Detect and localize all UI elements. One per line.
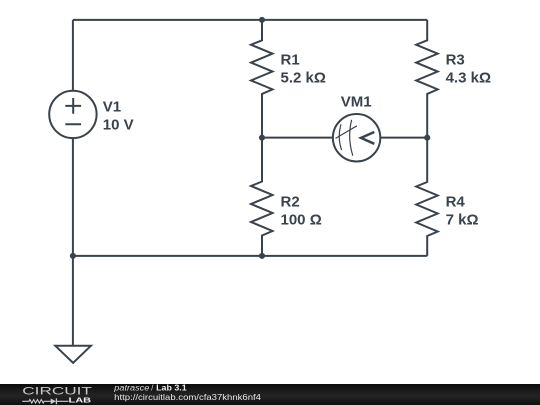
wire ground stub <box>72 256 74 346</box>
resistor R4 <box>416 138 438 256</box>
svg-text:http://circuitlab.com/cfa37khn: http://circuitlab.com/cfa37khnk6nf4 <box>114 393 261 402</box>
VM1 gauge needle <box>336 126 357 139</box>
node dot: R2 / bottom rail <box>259 253 265 259</box>
voltmeter VM1 body <box>333 114 380 161</box>
wire left rail lower <box>72 138 74 256</box>
svg-text:/: / <box>151 384 154 393</box>
wire top rail <box>73 19 427 21</box>
wire left rail upper <box>72 20 74 91</box>
svg-text:patrasce: patrasce <box>113 384 150 393</box>
footer logo resistor zigzag wire <box>22 400 68 404</box>
node dot: left rail / bottom rail <box>70 253 76 259</box>
wire middle left (node B to VM1) <box>262 137 333 139</box>
footer bar <box>0 384 540 405</box>
wire middle right (VM1 to node C) <box>380 137 427 139</box>
resistor R2 <box>251 138 273 256</box>
node dot: R3/R4/VM1 junction <box>424 135 430 141</box>
svg-text:LAB: LAB <box>69 396 92 405</box>
svg-text:Lab 3.1: Lab 3.1 <box>156 384 187 393</box>
node dot: top rail / R1 <box>259 17 265 23</box>
footer logo diode symbol <box>51 399 56 405</box>
voltage source V1 body <box>49 91 96 138</box>
V1 plus sign <box>65 98 81 114</box>
wire bottom rail <box>73 255 427 257</box>
node dot: R1/R2/VM1 junction <box>259 135 265 141</box>
VM1 gauge left arc <box>339 124 341 150</box>
resistor R3 <box>416 20 438 138</box>
resistor R1 <box>251 20 273 138</box>
VM1 arrow (less-than) <box>361 132 374 144</box>
VM1 gauge right arc <box>350 120 353 156</box>
V1 minus sign <box>65 123 81 125</box>
ground symbol <box>55 346 91 363</box>
